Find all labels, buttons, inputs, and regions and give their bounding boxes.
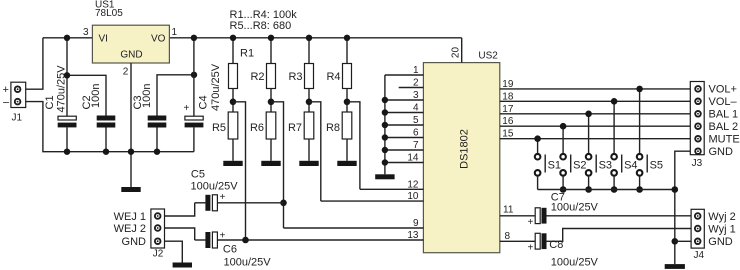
ground J2 [173,263,192,268]
svg-text:C6: C6 [223,243,237,255]
svg-text:10: 10 [407,191,419,202]
IC US2 [423,63,499,253]
resistor R3 [305,35,314,112]
wire J3 ground to bus [675,151,691,264]
resistor R4 [343,35,352,112]
svg-text:8: 8 [505,231,511,242]
wire pin 3 [385,99,424,101]
wire pin 5 [385,124,424,126]
svg-text:4: 4 [413,103,419,114]
svg-text:100u/25V: 100u/25V [191,180,239,192]
resistor R5 [228,99,238,161]
ground right [665,264,685,269]
svg-text:WEJ 1: WEJ 1 [114,211,146,223]
svg-text:BAL 1: BAL 1 [709,109,739,121]
svg-text:+: + [528,217,534,228]
wire pin 2 stub [399,87,424,89]
node bus gnd junction [672,186,679,193]
wire pin 13 [217,239,423,241]
svg-text:VOL+: VOL+ [709,84,737,96]
svg-text:S1: S1 [548,160,561,172]
wire pin 4 [385,112,424,114]
capacitor C3 [148,72,198,155]
wire J2 ground [165,241,183,262]
wire R8 tap to pin 12 [347,102,360,190]
svg-text:DS1802: DS1802 [459,129,471,169]
wire J1 plus to top rail [26,38,43,89]
svg-text:470u/25V: 470u/25V [210,63,222,111]
svg-text:R4: R4 [326,71,340,83]
resistor R7 [304,99,314,161]
wire pin 12 [360,188,424,190]
connector J2 [151,209,165,248]
wire pin 9 [284,227,424,229]
svg-text:13: 13 [407,230,419,241]
svg-text:100u/25V: 100u/25V [551,256,599,268]
svg-text:1: 1 [413,65,419,76]
svg-text:VOL–: VOL– [709,96,738,108]
wire pin 10 [321,200,424,202]
wire pin 15 [500,138,691,140]
svg-text:MUTE: MUTE [709,134,740,146]
wire R5 tap to pin 13 [233,102,246,240]
capacitor C5 [195,195,284,211]
svg-text:3: 3 [413,90,419,101]
resistor R1 [229,35,238,112]
svg-text:R1: R1 [240,48,254,60]
capacitor C8 [535,229,691,250]
svg-text:100n: 100n [90,84,102,108]
ground main [121,187,140,192]
svg-text:5: 5 [413,115,419,126]
capacitor C4 [185,35,204,152]
svg-text:J1: J1 [12,113,23,124]
svg-text:R3: R3 [288,71,302,83]
svg-text:1: 1 [172,27,178,38]
svg-text:100u/25V: 100u/25V [551,202,599,214]
svg-text:C1: C1 [44,95,56,109]
svg-text:12: 12 [407,179,419,190]
svg-text:78L05: 78L05 [95,8,123,19]
svg-text:R8: R8 [326,122,340,134]
connector J1 [11,82,26,107]
wire pin 17 [500,113,691,115]
svg-text:14: 14 [407,153,419,164]
wire pin 6 [385,137,424,139]
ground R8 [337,161,356,166]
svg-text:R6: R6 [250,122,264,134]
svg-text:C5: C5 [191,169,205,181]
node C6 tap [242,237,249,244]
svg-text:J4: J4 [694,250,705,261]
regulator US1 [92,25,169,63]
svg-text:WEJ 2: WEJ 2 [114,223,146,235]
svg-text:17: 17 [502,104,514,115]
svg-text:2: 2 [123,67,129,78]
svg-text:R2: R2 [250,71,264,83]
switch S5 [636,86,647,193]
wire top supply rail [43,37,462,39]
svg-text:GND: GND [708,236,733,248]
wire US1 ground pin [130,63,132,187]
capacitor C2 [64,72,115,155]
wire switch bottom bus [538,189,675,191]
svg-text:9: 9 [413,218,419,229]
switch S3 [585,111,596,193]
svg-text:J2: J2 [153,249,164,260]
resistor R6 [266,99,276,161]
svg-text:GND: GND [709,146,734,158]
ground R7 [299,161,318,166]
svg-text:+: + [184,103,190,114]
wire pin 14 [385,162,424,164]
node C5 tap [280,200,287,207]
connector J4 [691,209,704,248]
svg-text:Wyj 1: Wyj 1 [708,223,735,235]
svg-text:S4: S4 [624,160,637,172]
svg-text:470u/25V: 470u/25V [55,65,67,113]
svg-text:GND: GND [120,50,142,61]
wire WEJ1 to C5 [165,203,195,216]
wire pin 19 [500,88,691,90]
svg-text:–: – [3,96,10,108]
svg-text:S3: S3 [599,160,612,172]
switch S2 [560,123,571,193]
wire pin 20 [461,38,463,63]
svg-text:VI: VI [99,33,108,44]
wire WEJ2 to C6 [165,228,195,240]
wire J1 minus to left ground rail [26,102,194,152]
svg-text:7: 7 [413,140,419,151]
wire R7 tap to pin 10 [309,102,321,201]
svg-text:S2: S2 [573,160,586,172]
wire J4 ground [675,240,691,242]
svg-text:6: 6 [413,128,419,139]
ground R6 [261,161,280,166]
svg-text:BAL 2: BAL 2 [709,121,739,133]
svg-text:18: 18 [502,91,514,102]
svg-text:US2: US2 [478,51,498,62]
svg-text:Wyj 2: Wyj 2 [708,211,735,223]
svg-text:19: 19 [502,79,514,90]
wire R6 tap to pin 9 [271,102,284,228]
wire pin 16 [500,125,691,127]
wire pin 18 [500,100,691,102]
capacitor C7 [535,208,691,224]
svg-text:VO: VO [151,33,166,44]
connector J3 [690,82,704,155]
svg-text:+: + [3,84,9,96]
svg-text:100u/25V: 100u/25V [224,257,272,269]
wire pin 7 [385,149,424,151]
svg-text:GND: GND [122,236,147,248]
svg-text:16: 16 [502,116,514,127]
resistor R2 [267,35,276,112]
ground pins bus [375,174,394,179]
svg-text:100n: 100n [141,84,153,108]
switch S1 [534,135,545,189]
svg-text:+: + [220,192,226,203]
svg-text:R1...R4: 100k: R1...R4: 100k [230,9,298,21]
capacitor C1 [58,35,77,155]
svg-text:15: 15 [502,129,514,140]
capacitor C6 [195,232,218,248]
ground R5 [223,161,242,166]
svg-text:R5...R8: 680: R5...R8: 680 [230,20,292,32]
svg-text:R7: R7 [288,122,302,134]
svg-text:C4: C4 [197,95,209,109]
resistor R8 [342,99,352,161]
wire J4 wyj2 stub [690,215,692,217]
svg-text:+: + [528,243,534,254]
node J4 gnd junction [672,238,679,245]
wire grounded pin bus [382,75,388,174]
wire pin 1 [385,74,424,76]
svg-text:J3: J3 [692,158,703,169]
node main ground junction [128,149,134,155]
svg-text:S5: S5 [650,160,663,172]
svg-text:2: 2 [413,78,419,89]
svg-text:R5: R5 [212,122,226,134]
svg-text:11: 11 [503,204,514,215]
wire pin 8 to C8 [500,240,535,242]
switch S4 [611,98,622,193]
svg-text:3: 3 [83,27,89,38]
svg-text:+: + [220,231,226,242]
svg-text:20: 20 [451,47,462,59]
wire pin 11 to C7 [500,215,535,217]
svg-text:C8: C8 [549,239,563,251]
